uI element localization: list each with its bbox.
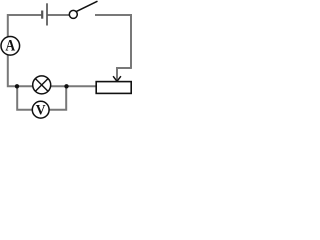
node right junction dot	[64, 84, 68, 88]
svg-text:A: A	[5, 37, 15, 54]
wire elbow to rheostat slider	[117, 68, 132, 80]
wire switch to top-right corner and down right side	[95, 15, 131, 68]
resistor R1 rheostat body	[96, 82, 131, 94]
battery B1 short negative plate	[41, 11, 43, 19]
wire top-left horizontal + left vertical + bottom run (main loop left)	[8, 15, 96, 86]
wire voltmeter parallel branch	[17, 86, 66, 110]
voltmeter V1	[32, 101, 49, 118]
svg-text:V: V	[36, 102, 46, 118]
switch S1 (circle contact + open lever)	[69, 1, 97, 18]
ammeter A1	[1, 37, 20, 56]
node left junction dot	[15, 84, 19, 88]
battery B1 long positive plate	[46, 3, 48, 25]
lamp L1 (circle with X)	[33, 76, 51, 94]
rheostat slider arrow	[113, 76, 121, 81]
wire battery to switch	[47, 14, 70, 16]
